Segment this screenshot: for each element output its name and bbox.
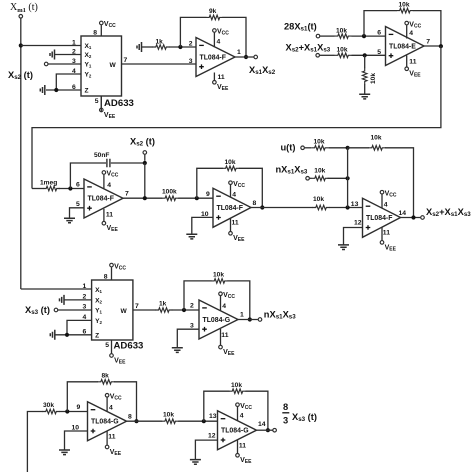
wire R5 to U3 pin5 [352,54,386,56]
svg-text:3: 3 [190,323,194,330]
capacitor C1 50nF [107,159,110,168]
svg-text:TL084-E: TL084-E [389,44,416,51]
svg-text:1: 1 [240,312,244,319]
wire summing bus vertical [347,148,349,208]
resistor R4 10k feedback [396,8,413,13]
wire U5 feedback riser [197,168,223,198]
junction summing bus mid [346,176,350,180]
wire U1 pin2 [55,54,82,56]
junction U3 output [439,44,443,48]
terminal u(t) input [301,146,305,150]
svg-text:8: 8 [283,402,288,412]
wire U10 pin12 to ground [195,440,217,460]
wire U9 feedback riser [67,382,98,412]
wire U2 output [235,56,254,58]
junction U7 pin4/pin6 [65,333,69,337]
svg-text:30k: 30k [43,402,54,409]
wire R13 to summing bus [328,177,348,179]
svg-text:X1: X1 [95,287,102,294]
svg-text:5: 5 [95,98,99,105]
junction U9 output [134,419,138,423]
terminal 28X_s1 input [316,34,320,38]
svg-text:W: W [110,62,117,69]
U9 Vcc pin4 [105,394,109,398]
ground at U9 pin10 [59,450,70,455]
wire R17 to U9 pin9 [59,411,88,413]
wire down to integrator output [144,163,146,198]
svg-text:1k: 1k [156,39,164,46]
svg-text:Xs3 (t): Xs3 (t) [292,412,317,423]
svg-text:X2: X2 [85,52,92,59]
junction U2 pin2 node [178,45,182,49]
U1 Vee terminal pin5 [100,108,104,112]
wire R9 to U5 pin9 [178,197,213,199]
wire R1 to U2 pin2 [169,46,196,48]
junction U3 pin5 node [363,53,367,57]
wire U7 pin4 to pin6 [67,320,92,334]
wire U1 pin4 to pin6 [56,74,81,90]
junction U6 output [411,215,415,219]
wire U1 W output to U2 pin3 [122,63,197,65]
junction U5 output [260,205,264,209]
wire capacitor feedback riser [70,163,106,189]
svg-text:TL084-F: TL084-F [200,55,226,62]
resistor R16 10k feedback [211,279,228,284]
svg-text:10k: 10k [231,382,242,389]
junction at AD633 U1 pin1 [19,43,23,47]
wire feedback riser U3 [364,11,397,36]
ground at U7 pin2 [60,295,65,305]
wire U9 output to R19 [127,420,163,422]
terminal X_s2 input at U1 pin3 [44,62,48,66]
junction U8 output [248,317,252,321]
terminal X_s1X_s2 output [254,55,258,59]
svg-text:10k: 10k [371,135,382,142]
wire U6 output [401,217,421,219]
U3 Vcc pin4 [405,21,409,25]
wire R18 to U9 output [114,382,137,421]
svg-text:10k: 10k [336,27,347,34]
op-amp U2 TL084-F [196,38,235,77]
svg-text:9: 9 [206,191,210,198]
svg-text:10k: 10k [213,272,224,279]
wire U10 feedback riser [204,391,230,421]
resistor R20 10k feedback [229,389,246,394]
svg-text:10k: 10k [314,138,325,145]
svg-text:13: 13 [351,201,359,208]
wire R16 to U8 output [228,281,250,320]
wire R15 to U8 pin2 [172,309,199,311]
wire U4 output to R9 [123,197,162,199]
svg-text:10k: 10k [337,46,348,53]
wire U8 pin3 to ground [177,329,199,348]
svg-text:Xs2 (t): Xs2 (t) [130,137,155,148]
terminal 8/3 X_s3 output [273,428,277,432]
svg-text:7: 7 [135,303,139,310]
svg-text:4: 4 [107,182,111,189]
resistor R12 10k [305,147,312,149]
svg-text:11: 11 [239,443,246,450]
svg-text:11: 11 [218,74,225,81]
U10 Vee pin11 [236,454,240,458]
wire U7 pin6 Z [56,334,92,336]
U8 Vee pin11 [219,345,223,349]
wire X_m1 rail to U7 pin1 [21,288,92,290]
svg-text:3: 3 [283,416,288,426]
svg-text:7: 7 [124,57,128,64]
wire R4 to U3 output [413,11,441,46]
U4 Vcc pin4 [102,171,106,175]
wire R2 to output [222,17,246,57]
junction U10 pin13 node [202,419,206,423]
junction X_s2 tap [143,161,147,165]
wire R3 to U3 pin6 [352,35,386,37]
multiplier U1 AD633 body [81,36,122,96]
svg-text:11: 11 [409,59,416,66]
wire U5 output to R11 [251,207,313,209]
multiplier U7 AD633 body [92,280,133,340]
junction U3 pin6 node [362,34,366,38]
wire R20 to U10 output [246,391,268,430]
svg-text:13: 13 [209,413,217,420]
svg-text:W: W [121,308,128,315]
svg-text:8: 8 [93,30,97,37]
junction U10 output [266,428,270,432]
resistor R11 10k [313,205,330,210]
op-amp U10 TL084-G [218,411,257,450]
resistor R18 8k feedback [98,380,115,385]
resistor R3 10k [320,35,334,37]
svg-text:6: 6 [76,182,80,189]
terminal X_s2+X_s1X_s3 output [421,216,425,220]
junction summing bus top [346,146,350,150]
svg-text:Y1: Y1 [85,62,92,69]
svg-text:12: 12 [354,220,362,227]
op-amp U3 TL084-E [386,27,425,66]
U6 Vcc pin4 [380,190,384,194]
terminal X_s2+X_s1X_s3 input [316,54,320,58]
op-amp U6 TL084-F [363,198,401,237]
wire R10 to U5 output [239,168,262,207]
svg-text:8: 8 [253,200,257,207]
svg-text:1: 1 [237,49,241,56]
junction U9 pin9 node [65,409,69,413]
svg-text:TL084-F: TL084-F [88,196,114,203]
wire U5 pin10 to ground [192,217,213,234]
wire U9 pin10 to ground [65,431,88,450]
U1 Vcc terminal pin8 [100,21,104,25]
ground at U7 pin6 [50,330,55,340]
svg-text:12: 12 [208,433,216,440]
wire feedback riser U2 [180,17,206,47]
svg-text:10k: 10k [163,412,174,419]
svg-text:X1: X1 [85,43,92,50]
junction U5 pin9 node [195,196,199,200]
ground at U8 pin3 [172,348,183,353]
svg-text:10k: 10k [314,168,325,175]
junction U4 pin6 node [68,186,72,190]
resistor R6 10k to ground [364,55,366,68]
resistor R15 1k [155,308,172,313]
U4 Vee pin11 [102,221,106,225]
wire U1 pin3 [48,63,81,65]
resistor R10 10k feedback [222,166,239,171]
svg-text:14: 14 [399,210,407,217]
wire U3 output [424,45,441,47]
svg-text:10k: 10k [313,196,324,203]
op-amp U5 TL084-F [213,188,251,227]
resistor R9 100k [162,196,179,201]
op-amp U9 TL084-G [88,402,127,441]
resistor R1 1k [142,46,154,48]
svg-text:1: 1 [72,40,76,47]
svg-text:TL084-G: TL084-G [221,428,249,435]
svg-text:9: 9 [77,404,81,411]
resistor R17 30k [43,409,60,414]
svg-text:10k: 10k [399,1,410,8]
svg-text:X2: X2 [95,298,102,305]
junction U6 pin13 node [346,205,350,209]
terminal nX_s1X_s3 output [258,318,262,322]
svg-text:1meg: 1meg [40,180,57,187]
svg-text:6: 6 [377,30,381,37]
terminal X_s3 input at U7 pin3 [54,308,58,312]
svg-text:11: 11 [383,230,390,237]
ground at U4 pin5 [64,218,75,223]
svg-text:100k: 100k [162,189,177,196]
U7 Vee terminal pin5 [110,354,114,358]
svg-text:TL084-F: TL084-F [217,205,243,212]
svg-text:u(t): u(t) [281,143,296,153]
junction integrator output / X_s2 node [143,196,147,200]
U7 Vcc terminal pin8 [110,263,114,267]
U2 Vee pin11 [213,81,217,85]
wire U1 pin6 Z [46,89,81,91]
svg-text:5: 5 [76,201,80,208]
junction U8 pin2 node [182,308,186,312]
svg-text:3: 3 [189,58,193,65]
svg-text:4: 4 [109,405,113,412]
resistor R13 10k [310,177,312,179]
resistor R14 10k feedback U6 [348,147,369,149]
svg-text:4: 4 [384,202,388,209]
svg-text:Y2: Y2 [95,318,102,325]
svg-text:4: 4 [217,39,221,46]
ground at U10 pin12 [190,460,201,465]
op-amp U8 TL084-G [199,300,238,339]
svg-text:4: 4 [240,413,244,420]
junction U2 output node [244,55,248,59]
wire R14 to U6 output [385,148,414,218]
U2 Vcc pin4 [213,29,217,33]
wire U7 pin2 [64,299,92,301]
wire R7 to U4 pin6 [59,188,85,190]
svg-text:Xs2 (t): Xs2 (t) [8,70,33,81]
svg-text:5: 5 [105,342,109,349]
ground at U6 pin12 [338,245,349,250]
terminal X_s2(t) state output [143,151,147,155]
svg-text:1: 1 [83,283,87,290]
ground at 1k R1 [137,42,142,52]
U3 Vee pin11 [405,67,409,71]
wire U3 output long feedback to integrator [32,46,441,189]
svg-text:14: 14 [258,421,266,428]
terminal X_m1 [19,14,23,18]
wire bottom input rail [27,412,43,473]
resistor R19 10k [162,419,179,424]
resistor R7 1meg [32,188,44,190]
svg-text:Z: Z [85,88,89,95]
svg-text:AD633: AD633 [104,98,134,109]
resistor R2 9k feedback [206,15,223,20]
svg-text:AD633: AD633 [114,341,144,352]
svg-text:4: 4 [222,303,226,310]
svg-text:7: 7 [426,39,430,46]
svg-text:7: 7 [125,191,129,198]
wire R6 to ground [364,84,366,94]
U5 Vee pin11 [229,232,233,236]
wire R12 to summing node [328,147,347,149]
svg-text:5: 5 [377,49,381,56]
U10 Vcc pin4 [236,403,240,407]
ground below R6 [359,94,370,99]
svg-text:8k: 8k [102,373,110,380]
wire U8 feedback riser [184,281,212,310]
svg-text:TL084-G: TL084-G [91,419,119,426]
svg-text:8: 8 [104,274,108,281]
svg-text:11: 11 [106,211,113,218]
wire U4 pin5 to ground [70,208,85,218]
wire U6 pin12 to ground [344,228,363,245]
svg-text:11: 11 [232,220,239,227]
terminal nX_s1X_s3 input [306,177,310,181]
svg-text:Y2: Y2 [85,72,92,79]
wire X_m1 vertical rail [20,18,22,289]
U9 Vee pin11 [105,445,109,449]
ground at U1 pin2 [50,50,55,60]
resistor R5 10k [320,54,335,56]
svg-text:50nF: 50nF [94,152,109,159]
ground at U5 pin10 [186,234,197,239]
wire U10 output [257,429,273,431]
svg-text:28Xs1(t): 28Xs1(t) [284,22,317,33]
svg-text:8: 8 [128,414,132,421]
svg-text:10k: 10k [370,73,377,84]
wire R19 to U10 pin13 [178,420,217,422]
wire U7 W output to R15 [133,309,156,311]
junction U1 pin4/pin6 [54,88,58,92]
svg-text:4: 4 [232,192,236,199]
ground at U1 pin6 [40,85,45,95]
wire C1 to output node [111,162,145,164]
svg-text:4: 4 [409,30,413,37]
U8 Vcc pin4 [219,292,223,296]
svg-text:9k: 9k [209,8,217,15]
wire R11 to U6 pin13 [329,207,363,209]
wire U8 output [238,319,258,321]
U6 Vee pin11 [380,241,384,245]
svg-text:TL084-G: TL084-G [203,317,231,324]
svg-text:Z: Z [95,333,99,340]
svg-text:2: 2 [190,303,194,310]
wire to U1 pin1 X1 [21,45,81,47]
svg-text:11: 11 [108,434,115,441]
svg-text:10k: 10k [225,159,236,166]
svg-text:1k: 1k [159,301,167,308]
svg-text:11: 11 [221,332,228,339]
svg-text:TL084-F: TL084-F [366,215,392,222]
op-amp U4 TL084-F integrator [84,179,123,218]
U5 Vcc pin4 [229,181,233,185]
svg-text:Y1: Y1 [95,308,102,315]
wire U7 pin3 [58,309,92,311]
svg-text:Xs3 (t): Xs3 (t) [25,305,50,316]
